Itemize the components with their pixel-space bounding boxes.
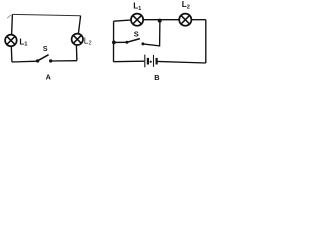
svg-text:S: S [134,29,139,38]
svg-text:B: B [154,73,159,82]
svg-text:A: A [46,73,51,82]
svg-text:S: S [43,46,48,53]
